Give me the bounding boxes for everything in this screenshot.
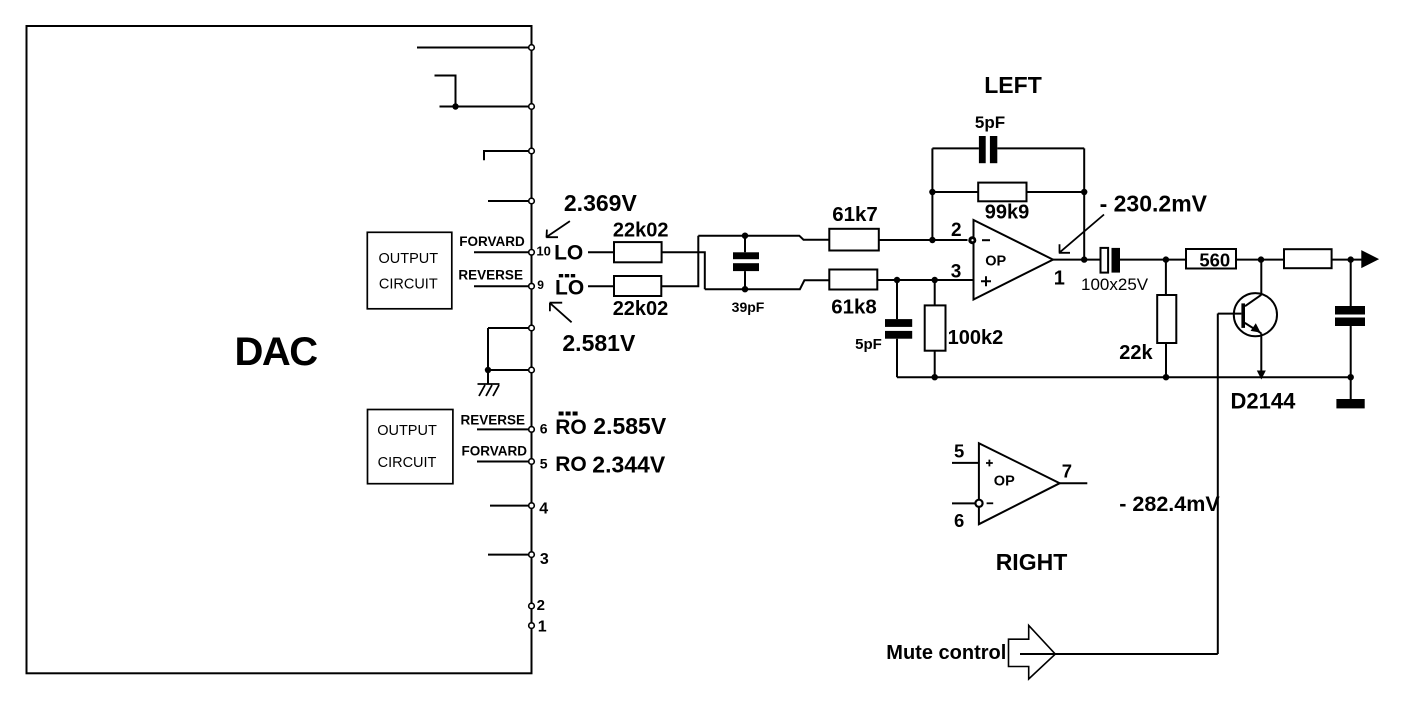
resistor R2 22k02 [614,276,661,296]
LO-bar dashes [559,274,575,277]
pin circles on DAC edge [529,45,535,629]
wire LO to R1 [588,251,614,253]
svg-text:LO: LO [555,276,584,299]
wire R3 to opamp pin2 [879,239,968,241]
pin circle A [529,45,535,51]
svg-text:1: 1 [1054,268,1065,290]
pin circle D [529,198,535,204]
pin 6 wire REVERSE [477,428,532,430]
svg-text:FORVARD: FORVARD [459,234,525,249]
pin circle 10 [529,250,535,256]
capacitor C2 5pF shunt [896,280,898,377]
mute wire horizontal [1020,653,1218,655]
svg-text:D2144: D2144 [1231,388,1297,413]
ground bar right [1336,399,1364,408]
junction dot node B2 [932,277,938,283]
junction dot 22k bottom [1163,374,1169,380]
svg-text:OUTPUT: OUTPUT [377,423,437,439]
svg-text:5pF: 5pF [855,336,882,353]
capacitor C3 5pF feedback [979,136,986,163]
feedback right vertical [1083,148,1085,259]
junction dot rail end [1348,374,1354,380]
op-amp U2 plus sign [986,460,993,467]
output circuit box L [367,232,452,308]
svg-text:RO: RO [555,453,587,476]
svg-text:100x25V: 100x25V [1081,275,1149,294]
pin circle 1 [529,623,535,629]
svg-text:99k9: 99k9 [985,202,1030,224]
wire fb top left [932,147,979,149]
svg-text:560: 560 [1199,250,1230,271]
svg-text:LO: LO [554,241,583,264]
junction dot B [452,103,458,109]
svg-text:REVERSE: REVERSE [458,268,523,283]
junction dot fb left mid [929,189,935,195]
junction dot C1 bottom [742,286,748,292]
junction dot out node [1348,256,1354,262]
wire bottom rail [897,376,1351,378]
svg-text:39pF: 39pF [732,299,765,315]
svg-text:61k8: 61k8 [831,296,877,319]
transistor Q1 emitter wire [1260,333,1262,372]
svg-text:Mute control: Mute control [886,642,1006,664]
pin circle 5 [529,459,535,465]
svg-text:10: 10 [536,243,550,258]
emitter arrowhead at rail [1257,371,1266,380]
svg-text:22k02: 22k02 [613,298,669,320]
pin circle C [529,148,535,154]
DAC IC body [27,26,532,673]
junction dot fb pin2 [929,237,935,243]
svg-text:3: 3 [540,551,549,568]
svg-text:2.344V: 2.344V [592,452,666,478]
mute control arrow symbol [1009,625,1056,679]
resistor R4 61k8 [829,270,877,290]
svg-text:FORVARD: FORVARD [462,443,528,458]
op-amp U1 plus sign [981,276,991,286]
svg-text:2.369V: 2.369V [564,190,638,216]
svg-text:CIRCUIT: CIRCUIT [379,276,438,292]
op-amp U2 pin5 wire [952,462,979,464]
svg-text:2: 2 [537,597,545,614]
wire R4 to opamp pin3 [877,279,973,281]
op-amp U2 pin7 wire [1060,482,1088,484]
op-amp U2 pin6 wire [952,502,975,504]
svg-text:2.581V: 2.581V [562,330,636,356]
junction dot fb output [1081,256,1087,262]
resistor R7 22k [1165,260,1167,378]
pin circle 4 [529,503,535,509]
wire R8 to R9 [1236,259,1284,261]
wire fb mid right [1027,191,1085,193]
svg-text:4: 4 [539,501,548,518]
pin 4 wire [490,505,532,507]
resistor R9 [1284,249,1332,268]
pin 3 wire [488,554,532,556]
op-amp U1 pin2 bubble [968,236,976,244]
wire AGND loop bottom [488,369,532,371]
junction dot fb right mid [1081,189,1087,195]
junction dot node B1 [894,277,900,283]
RO-bar dashes [559,412,578,416]
transistor Q1 emitter arrowhead [1251,323,1261,332]
pin circle B [529,104,535,110]
output arrow [1362,251,1378,267]
svg-text:RO: RO [555,416,587,439]
pin circle 3 [529,552,535,558]
pin 9 wire REVERSE [474,285,532,287]
op-amp U1 triangle [974,220,1054,300]
resistor R1 22k02 [614,242,662,262]
op-amp U2 triangle [979,443,1060,524]
svg-text:CIRCUIT: CIRCUIT [378,455,437,471]
junction dot C1 top [742,233,748,239]
wire C4 to R8 [1120,259,1186,261]
svg-text:9: 9 [537,278,544,292]
pin circle 9 [529,283,535,289]
svg-text:2.585V: 2.585V [593,413,667,439]
capacitor C4 100x25V electrolytic [1101,248,1109,273]
output circuit box R [368,410,453,484]
annotation arrow 2.369V [546,221,570,238]
wire top rail to R3 [698,236,829,240]
svg-text:61k7: 61k7 [832,203,878,226]
capacitor C1 39pF [744,236,746,290]
transistor Q1 base bar [1241,303,1245,328]
svg-text:OP: OP [994,473,1015,489]
svg-text:5: 5 [954,441,964,462]
base wire [1218,313,1242,315]
resistor R6 99k9 [978,183,1026,202]
wire fb top right [997,147,1084,149]
op-amp U2 pin6 bubble [975,500,982,507]
svg-text:LEFT: LEFT [984,72,1042,98]
svg-text:5: 5 [540,455,548,471]
svg-text:6: 6 [954,510,964,531]
transistor Q1 collector diagonal [1245,295,1261,306]
transistor Q1 circle [1234,293,1277,336]
wire crossover bottom-to-top [661,236,698,287]
svg-text:22k02: 22k02 [613,219,669,241]
wire pin top B stub [435,76,532,107]
wire fb mid left [932,191,978,193]
wire pin top D [488,200,532,202]
annotation arrow 230mV [1059,215,1104,253]
resistor R5 100k2 [934,280,936,377]
svg-text:2: 2 [951,220,962,241]
svg-text:OUTPUT: OUTPUT [378,251,438,267]
transistor Q1 emitter diagonal [1245,323,1262,333]
wire crossover top-to-bottom [661,252,705,289]
svg-text:7: 7 [1062,461,1072,482]
svg-text:OP: OP [985,253,1006,269]
svg-text:REVERSE: REVERSE [461,413,526,428]
svg-text:22k: 22k [1119,342,1153,364]
junction dot AGND [485,367,491,373]
pin circle AGND2 [529,367,535,373]
svg-text:RIGHT: RIGHT [996,549,1068,575]
svg-text:3: 3 [951,261,962,282]
svg-text:100k2: 100k2 [948,327,1004,349]
wire AGND vertical [487,328,489,384]
resistor R8 560 [1186,249,1236,269]
svg-text:- 282.4mV: - 282.4mV [1119,492,1220,516]
pin circle AGND1 [529,325,535,331]
svg-text:DAC: DAC [235,330,318,374]
op-amp U2 minus sign [987,502,994,504]
junction dot collector node [1258,256,1264,262]
feedback left vertical [931,148,933,240]
junction dot node 22k [1163,256,1169,262]
transistor Q1 collector wire [1260,260,1262,295]
wire pin top A (unlabeled) [417,47,532,49]
op-amp U1 minus sign [982,239,990,241]
mute wire vertical [1217,314,1219,655]
resistor R3 61k7 [829,229,879,251]
wire R9 to out [1332,259,1362,261]
wire opamp out [1053,259,1101,261]
pin 10 wire FORVARD [474,251,532,253]
junction dot R5 bottom [932,374,938,380]
capacitor C5 output [1350,260,1352,399]
pin circle 2 [529,603,535,609]
pin 5 wire FORVARD [477,461,532,463]
svg-text:1: 1 [538,618,547,635]
wire AGND loop top [488,327,532,329]
svg-text:- 230.2mV: - 230.2mV [1100,190,1208,216]
wire LOn to R2 [588,285,614,287]
annotation arrow 2.581V [550,303,572,323]
wire bottom rail to R4 [705,280,830,289]
svg-text:5pF: 5pF [975,113,1005,132]
wire pin top C stub [484,151,532,160]
ground symbol [478,384,500,396]
svg-text:6: 6 [540,421,548,437]
pin circle 6 [529,427,535,433]
